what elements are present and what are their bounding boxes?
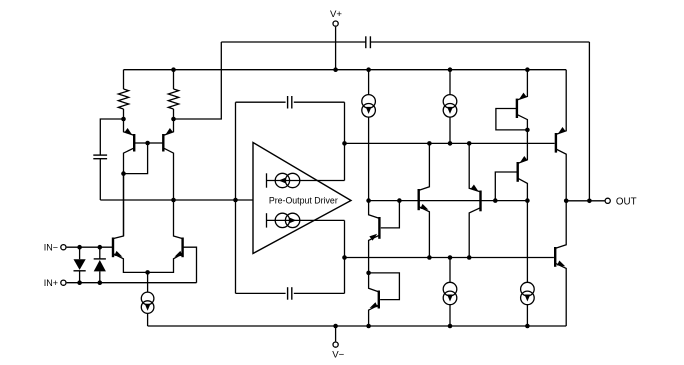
wire Q1 emitter	[124, 119, 135, 135]
wire middle bias rail E	[369, 200, 528, 202]
wire pre-driver top edge right	[294, 101, 345, 103]
arrow Q4 emitter (NPN)	[175, 251, 183, 257]
node top cap to rail C	[342, 141, 347, 146]
node Q9 emitter on V+ rail	[525, 67, 530, 72]
wire tail lead	[147, 272, 149, 292]
node I6 on V- rail	[448, 324, 453, 329]
current source I1 (tail)	[141, 292, 154, 313]
wire Q11 emitter	[556, 70, 566, 135]
label OUT	[616, 196, 637, 207]
node Q10 collector on rail E	[525, 198, 530, 203]
current source I4	[362, 95, 376, 118]
transistor Q2 base bar	[162, 134, 164, 152]
wire IN- line	[67, 246, 113, 248]
arrow Q3 emitter (NPN)	[114, 251, 122, 257]
transistor Q6 base bar	[378, 291, 380, 309]
wire V+ stub	[335, 27, 337, 70]
wire Q9 base loop	[496, 109, 528, 130]
arrow Q2 emitter (PNP)	[165, 128, 173, 135]
wire pre-driver right edge upper	[344, 102, 346, 180]
node Q8 collector on rail D	[467, 255, 472, 260]
wire V+ rail (top horizontal bus)	[124, 69, 567, 71]
node D1 top	[77, 245, 82, 250]
node I6 on rail D	[448, 255, 453, 260]
wire Q2 collector	[163, 148, 173, 200]
wire I6 bottom lead	[449, 305, 451, 326]
transistor Q10 base bar	[517, 162, 519, 182]
wire Q12 emitter	[555, 263, 566, 326]
node tail junction	[145, 270, 150, 275]
wire bottom cs tick	[266, 213, 268, 227]
wire I5 down to rail C	[449, 117, 451, 143]
current source I7	[521, 282, 535, 304]
terminal V+	[333, 21, 338, 26]
diode D1 (anode up)	[74, 247, 86, 283]
node Q6 emitter on V- rail	[366, 324, 371, 329]
transistor Q7 base bar	[418, 189, 420, 210]
resistor R1	[118, 70, 128, 119]
node Q9 collector tie	[525, 128, 530, 133]
arrow Q11 emitter (PNP)	[558, 127, 566, 134]
wire rail A right riser to OUT node	[588, 42, 590, 201]
node R2 top on V+ rail	[171, 67, 176, 72]
wire V- stub	[335, 326, 337, 341]
node I4 on V+ rail	[366, 67, 371, 72]
terminal IN-	[61, 245, 66, 250]
label V+	[330, 9, 342, 20]
wire pre-driver bottom edge left	[236, 292, 286, 294]
wire Q6 base loop	[369, 273, 400, 300]
wire pre-driver box left edge	[235, 102, 237, 293]
node I5 rail C junction	[448, 141, 453, 146]
node Q7 collector on rail C	[427, 141, 432, 146]
node I7 on V- rail	[525, 324, 530, 329]
node Q11/Q12 collectors on OUT	[564, 199, 569, 204]
svg-text:OUT: OUT	[616, 196, 637, 207]
transistor Q9 base bar	[516, 99, 518, 118]
wire V- rail (bottom horizontal bus)	[148, 325, 567, 327]
terminal IN+	[61, 280, 66, 285]
node D2 top	[98, 245, 103, 250]
wire Q1 base	[134, 142, 147, 144]
wire top current-source line	[267, 180, 345, 182]
arrow Q9 emitter (PNP)	[519, 93, 527, 100]
wire Q1 collector	[124, 148, 135, 236]
capacitor C2	[93, 155, 107, 159]
wire I7 bottom lead	[526, 305, 528, 326]
wire lower base rail D	[345, 257, 554, 259]
wire Q5 emitter	[369, 235, 380, 273]
arrow Q10 emitter (PNP)	[520, 156, 528, 163]
transistor Q5 base bar	[378, 217, 380, 239]
label V-	[332, 350, 344, 361]
wire top cs tick	[266, 173, 268, 187]
arrow Q5 emitter (PNP into bar)	[369, 234, 377, 241]
arrow Q8 emitter (PNP)	[471, 185, 479, 192]
wire Q6 collector	[369, 273, 379, 292]
wire base-collector tie	[124, 143, 148, 174]
wire Q12 collector	[555, 201, 566, 249]
svg-text:V−: V−	[332, 350, 344, 361]
label IN+	[44, 278, 58, 288]
node Q8 emitter on rail C	[467, 141, 472, 146]
svg-text:V+: V+	[330, 9, 342, 20]
node V+ on rail	[333, 67, 338, 72]
wire Q5 collector	[369, 201, 380, 219]
wire Q10 collector	[518, 178, 528, 200]
wire Q9 collector	[517, 114, 528, 129]
node I5 on V+ rail	[448, 67, 453, 72]
wire Q7 collector	[419, 143, 430, 190]
wire IN+ riser to Q4 base	[183, 247, 197, 283]
node comp line on OUT	[587, 199, 592, 204]
wire Q3 collector	[113, 174, 124, 239]
wire compensation line left of cap	[221, 41, 365, 43]
wire compensation line right of cap	[370, 41, 589, 43]
capacitor C3 (top feedback)	[288, 96, 292, 109]
current source I5	[443, 95, 457, 118]
resistor R2	[168, 70, 178, 119]
transistor Q12 base bar	[554, 247, 556, 267]
capacitor C1 (series compensation cap)	[366, 36, 371, 48]
wire I4 top lead	[368, 70, 370, 95]
wire Q8 emitter	[469, 143, 480, 192]
terminal OUT	[605, 198, 610, 203]
wire Q2 emitter	[163, 119, 173, 135]
arrow Q1 emitter (PNP)	[124, 128, 132, 135]
wire Q4 emitter	[148, 254, 183, 273]
svg-text:Pre-Output Driver: Pre-Output Driver	[269, 195, 338, 205]
label IN-	[44, 242, 58, 252]
wire I4 down to rail E	[368, 117, 370, 201]
wire I7 top lead	[526, 201, 528, 283]
wire Q10 emitter	[518, 130, 528, 164]
current source I6	[443, 282, 457, 304]
wire Q4 collector	[174, 200, 183, 239]
wire Q5 base tap	[381, 201, 400, 228]
node Q1 collector diode tie	[121, 171, 126, 176]
node Q10 base on rail E	[493, 198, 498, 203]
current source I3 (pre-driver bottom)	[275, 213, 300, 227]
wire pre-driver input rail	[100, 199, 253, 201]
capacitor C4 (bottom feedback)	[288, 287, 292, 300]
wire Q7 emitter	[419, 207, 430, 258]
node D2 bottom	[98, 280, 103, 285]
wire Q6 emitter	[369, 305, 379, 326]
wire pre-driver bottom edge right	[294, 292, 345, 294]
node Q5 base on rail E	[397, 198, 402, 203]
node R1 bottom	[121, 117, 126, 122]
transistor Q3 base bar	[112, 238, 114, 258]
wire Q3 emitter	[113, 254, 148, 273]
current source I2 (pre-driver top)	[275, 173, 300, 187]
node Q7 emitter on rail D	[427, 255, 432, 260]
wire pre-driver right edge lower	[344, 220, 346, 293]
node R2 bottom	[171, 117, 176, 122]
wire cap C2 top lead	[100, 119, 123, 155]
wire I6 top lead	[449, 258, 451, 283]
wire rail A left riser to mirror emitter node	[174, 42, 222, 119]
node V- on rail	[333, 324, 338, 329]
wire Q10 base loop	[495, 172, 517, 201]
node Q1/Q2 common base	[145, 141, 150, 146]
wire pre-driver top edge left	[236, 101, 286, 103]
node pre-driver input on box edge	[233, 198, 238, 203]
label Pre-Output Driver	[269, 195, 338, 205]
arrow Q6 emitter (NPN)	[370, 302, 378, 308]
svg-text:IN−: IN−	[44, 242, 58, 252]
node Q2 collector on mid rail	[171, 198, 176, 203]
arrow Q7 emitter (NPN)	[420, 204, 428, 210]
arrow Q12 emitter (NPN)	[557, 260, 565, 266]
node Q5/Q6 junction	[366, 271, 371, 276]
wire cap C2 bottom lead	[99, 159, 101, 200]
terminal V-	[333, 342, 338, 347]
svg-text:IN+: IN+	[44, 278, 58, 288]
wire Q2 base	[148, 142, 164, 144]
node bottom cap to rail D	[342, 255, 347, 260]
wire Q8 collector	[469, 208, 480, 258]
wire I5 top lead	[449, 70, 451, 95]
wire tail to V- rail	[147, 313, 149, 326]
op-amp U1 pre-output driver triangle	[253, 143, 351, 254]
transistor Q1 base bar	[133, 134, 135, 152]
transistor Q11 base bar	[555, 133, 557, 153]
diode D2 (anode down)	[94, 247, 106, 283]
wire Q9 emitter	[517, 70, 528, 100]
transistor Q8 base bar	[479, 191, 481, 212]
node I4 rail E junction	[366, 198, 371, 203]
wire Q11 collector	[556, 149, 566, 201]
wire IN+ line	[67, 282, 197, 284]
wire OUT line	[566, 200, 604, 202]
wire upper base rail C	[345, 142, 555, 144]
transistor Q4 base bar	[181, 238, 183, 258]
wire bottom current-source line	[267, 219, 345, 221]
node D1 bottom	[77, 280, 82, 285]
